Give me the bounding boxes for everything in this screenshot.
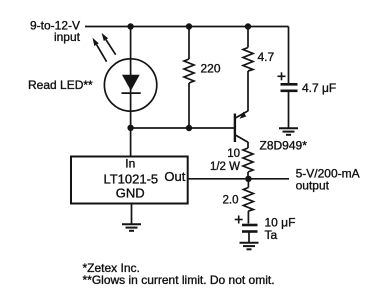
ground (C1) — [279, 128, 298, 135]
svg-text:4.7: 4.7 — [258, 50, 275, 64]
svg-text:10: 10 — [227, 148, 240, 160]
node J1 rail/LED junction — [127, 23, 133, 29]
svg-text:Read LED**: Read LED** — [28, 78, 93, 92]
transistor Q1 Z8D949 PNP — [235, 111, 248, 142]
svg-text:In: In — [125, 157, 135, 171]
svg-text:2.0: 2.0 — [223, 195, 239, 207]
node J6 output junction — [245, 176, 251, 182]
capacitor C1 4.7uF — [278, 72, 298, 91]
svg-text:220: 220 — [201, 62, 221, 76]
svg-text:Z8D949*: Z8D949* — [260, 139, 308, 153]
regulator U1 LT1021-5 box — [71, 157, 188, 204]
LED D1 circle — [104, 59, 156, 111]
svg-text:LT1021-5: LT1021-5 — [103, 172, 158, 187]
resistor R2 4.7 (zigzag with leads) — [243, 27, 253, 112]
svg-text:1/2 W: 1/2 W — [210, 161, 240, 173]
wire C1 to ground — [288, 91, 290, 128]
wire output rail — [188, 178, 289, 180]
svg-text:4.7 μF: 4.7 μF — [302, 81, 336, 95]
node J5 R1/base junction — [186, 125, 192, 131]
resistor R1 220 (zigzag with leads) — [184, 27, 194, 129]
label output net "5-V/200-mA output" — [296, 167, 360, 193]
node J4 LED/base junction — [127, 125, 133, 131]
svg-text:Ta: Ta — [265, 228, 278, 242]
svg-text:output: output — [296, 179, 330, 193]
capacitor C2 10uF Ta — [235, 216, 258, 243]
LED light arrows — [93, 33, 116, 62]
node J2 rail/R1 junction — [186, 23, 192, 29]
svg-text:Out: Out — [164, 169, 185, 184]
label C2 value "10 uF / Ta" — [265, 216, 296, 243]
label input net "9-to-12-V input" — [30, 19, 81, 45]
wire base rail (LED node to Q1 base) — [131, 127, 235, 129]
node J3 rail/R2 junction — [245, 23, 251, 29]
svg-text:input: input — [54, 30, 81, 44]
wire U1 GND pin — [131, 204, 133, 224]
ground (U1) — [122, 224, 141, 231]
wire right branch down to C1 — [288, 27, 290, 84]
ground (C2) — [240, 243, 259, 250]
wire top rail — [85, 26, 289, 28]
resistor R4 2.0 (zigzag with leads) — [243, 179, 253, 224]
wire LED branch vertical (rail to regulator In) — [130, 27, 132, 157]
svg-text:**Glows in current limit. Do n: **Glows in current limit. Do not omit. — [83, 273, 275, 287]
resistor R3 10 1/2W (zigzag with leads) — [243, 142, 253, 179]
svg-text:GND: GND — [116, 186, 145, 201]
LED D1 diode triangle and cathode bar — [122, 75, 141, 93]
label R3 value "10 / 1/2 W" — [210, 148, 240, 173]
